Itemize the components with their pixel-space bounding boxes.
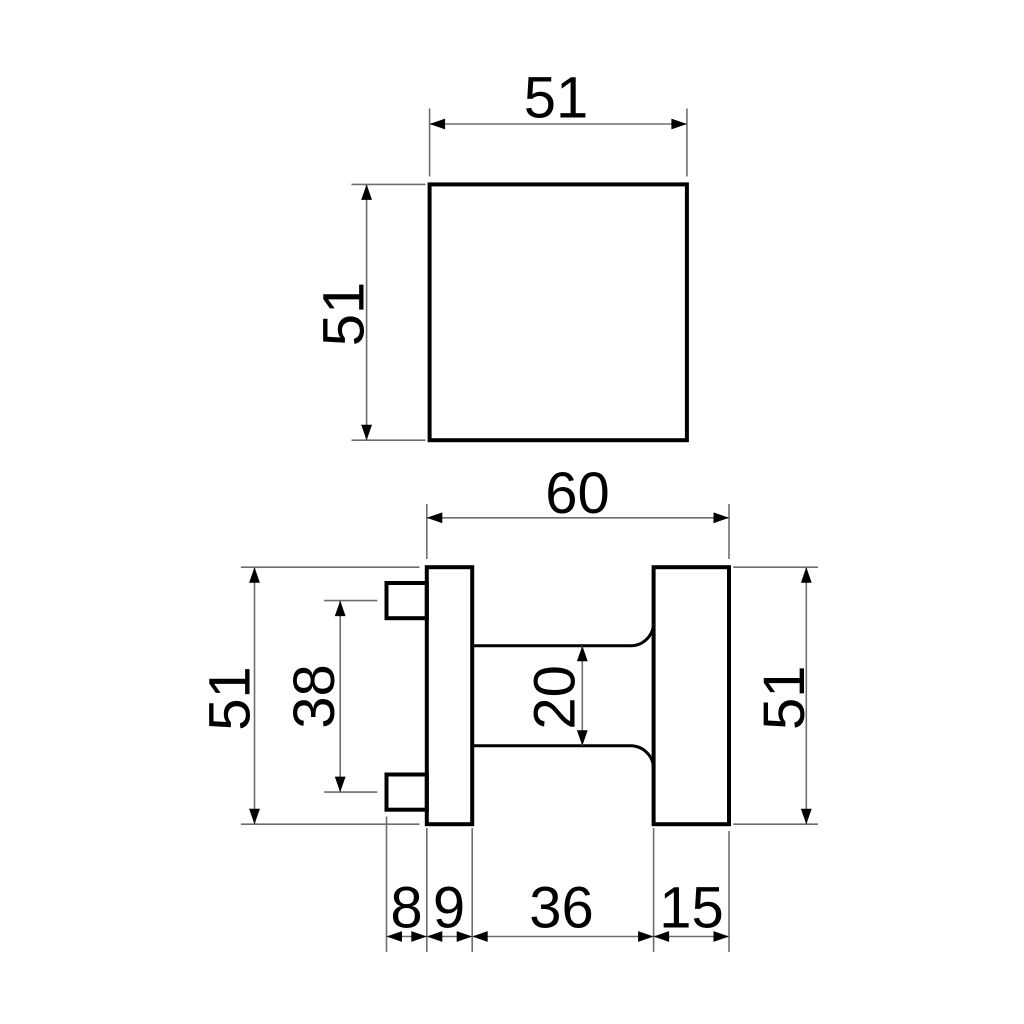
dim 51 top-view height: bottom arrowhead xyxy=(361,425,372,441)
svg-text:51: 51 xyxy=(198,666,263,731)
side view: neck bottom outline with fillet xyxy=(472,746,653,769)
dim 15: extension line at right plate left xyxy=(653,828,655,952)
top view: square face plate 51x51 xyxy=(430,184,687,440)
dim 15: left arrowhead xyxy=(654,931,670,942)
dim 51 top width: left arrowhead xyxy=(430,119,446,130)
svg-text:38: 38 xyxy=(282,664,347,729)
side view: right plate / knob face (15 wide) xyxy=(654,567,729,824)
svg-text:8: 8 xyxy=(390,876,422,941)
dim 15: right arrowhead xyxy=(714,931,730,942)
dim 51 side-view right: bottom arrowhead xyxy=(801,809,812,825)
dim 51 top-view height: upper extension line xyxy=(352,183,426,185)
dim 38: top arrowhead xyxy=(335,601,346,617)
dim 51 side-view left: top arrowhead xyxy=(249,567,260,583)
dim 60: left arrowhead xyxy=(427,512,443,523)
dim 51 side-view left: upper extension line xyxy=(241,566,420,568)
dim 38: bottom arrowhead xyxy=(335,777,346,793)
dim 38: upper extension line xyxy=(324,600,377,602)
dim 51 side-view right: upper extension line xyxy=(733,566,818,568)
dim 60: left extension line xyxy=(426,504,428,559)
dim 36: extension line at middle plate right xyxy=(471,828,473,952)
side view: middle plate (9 wide) xyxy=(427,567,472,824)
svg-text:36: 36 xyxy=(529,876,594,941)
dim 51 top-view height: lower extension line xyxy=(352,439,426,441)
dim 51 side-view left: lower extension line xyxy=(241,823,420,825)
dim 20: dimension line xyxy=(581,646,583,746)
dim 20: top arrowhead xyxy=(577,646,588,662)
dim 36: left arrowhead xyxy=(472,931,488,942)
dim 51 top width: right arrowhead xyxy=(671,119,687,130)
dim 8: right arrowhead xyxy=(411,931,427,942)
dim 51 side-view right: top arrowhead xyxy=(801,567,812,583)
svg-text:15: 15 xyxy=(659,876,724,941)
dim 60: right extension line xyxy=(728,504,730,559)
svg-text:51: 51 xyxy=(312,282,377,347)
dim 51 side-view left: dimension line xyxy=(254,567,256,824)
dim 51 top width: left extension line xyxy=(429,109,431,177)
dim 36: right arrowhead xyxy=(638,931,654,942)
dim 9: right arrowhead xyxy=(457,931,473,942)
dim 51 top-view height: top arrowhead xyxy=(361,184,372,200)
dim 15: extension line at right plate right xyxy=(728,831,730,952)
dim 51 top width: dimension line xyxy=(430,123,687,125)
svg-text:9: 9 xyxy=(433,876,465,941)
side view: upper screw boss tab xyxy=(387,583,427,618)
dim 9: left arrowhead xyxy=(427,931,443,942)
svg-text:51: 51 xyxy=(524,66,589,131)
dim 60: right arrowhead xyxy=(714,512,730,523)
side view: lower screw boss tab xyxy=(387,775,427,810)
dim 38: dimension line xyxy=(339,601,341,793)
dim 51 top width: right extension line xyxy=(686,109,688,177)
dim 20: bottom arrowhead xyxy=(577,730,588,746)
bottom dimension line xyxy=(387,936,730,938)
side view: neck top outline with fillet xyxy=(472,623,653,646)
dim 51 side-view right: dimension line xyxy=(805,567,807,824)
svg-text:20: 20 xyxy=(523,665,588,730)
dim 9: extension line at middle plate left xyxy=(426,828,428,952)
dim 60: dimension line xyxy=(427,517,729,519)
dim 8: left arrowhead xyxy=(387,931,403,942)
dim 51 side-view left: bottom arrowhead xyxy=(249,809,260,825)
dim 51 side-view right: lower extension line xyxy=(733,823,818,825)
dim 38: lower extension line xyxy=(324,791,377,793)
svg-text:60: 60 xyxy=(545,461,610,526)
dim 8: extension line at tab left xyxy=(386,817,388,953)
dim 51 top-view height: dimension line xyxy=(366,184,368,440)
svg-text:51: 51 xyxy=(752,666,817,731)
